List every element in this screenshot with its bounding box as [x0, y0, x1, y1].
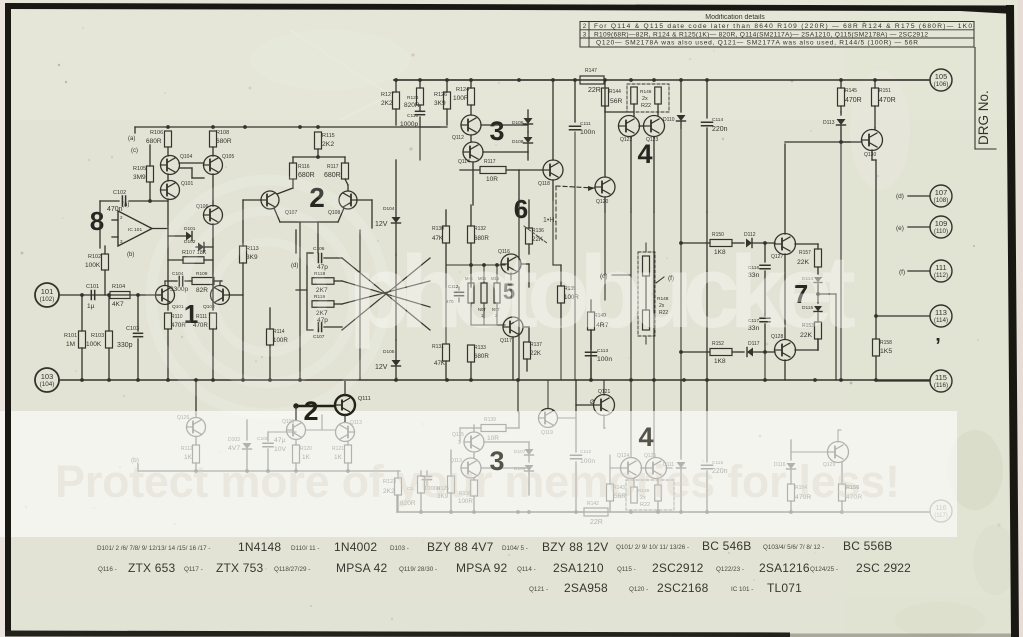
- diode D110: [663, 80, 686, 128]
- svg-text:2: 2: [583, 23, 587, 30]
- wire bot mid: [460, 412, 519, 442]
- wire q121: [576, 380, 605, 428]
- resistor R101 1M: [64, 295, 86, 380]
- node (b) opamp: [127, 252, 134, 258]
- svg-text:680R: 680R: [474, 353, 489, 360]
- svg-text:680R: 680R: [146, 138, 162, 145]
- svg-text:47K: 47K: [434, 360, 446, 367]
- svg-text:(106): (106): [934, 81, 949, 88]
- resistor R128 820R: [404, 80, 424, 109]
- wire trunk x556: [555, 186, 557, 240]
- wire trunk x553b: [553, 200, 561, 265]
- svg-text:820R: 820R: [404, 102, 420, 109]
- svg-text:4: 4: [637, 139, 652, 169]
- svg-text:4: 4: [638, 422, 653, 452]
- wire trunk x631: [630, 212, 632, 457]
- diode D108: [512, 132, 533, 160]
- capacitor C104 3300p: [168, 271, 192, 293]
- node (d) comp: [291, 263, 298, 269]
- wire R135 bottom: [560, 303, 562, 380]
- svg-text:R158: R158: [880, 340, 892, 346]
- svg-text:1•H.: 1•H.: [543, 217, 556, 224]
- wire Q130: [785, 128, 875, 160]
- resistor R157 22K: [797, 249, 822, 267]
- wire Q102: [165, 281, 243, 313]
- numeral 2 upper: [309, 182, 325, 213]
- capacitor C111 100n: [570, 80, 596, 380]
- svg-text:D105: D105: [383, 349, 395, 355]
- wire rail D: [397, 495, 930, 514]
- resistor R118 2K7: [312, 271, 342, 294]
- svg-text:Q111: Q111: [358, 396, 371, 402]
- svg-text:(108): (108): [934, 197, 949, 204]
- node (a) opamp: [122, 202, 129, 208]
- numeral 1: [184, 299, 198, 329]
- resistor R146a: [631, 87, 652, 109]
- resistor R124 100R: [453, 80, 475, 115]
- wire out bot: [610, 467, 672, 469]
- svg-text:2SC2168: 2SC2168: [657, 581, 709, 595]
- wire rail B: [394, 78, 929, 82]
- capacitor C115 220n: [702, 460, 728, 512]
- resistor R115 2K2: [315, 132, 335, 159]
- preset resistor VR101: [465, 263, 505, 325]
- svg-text:DRG No.: DRG No.: [976, 90, 991, 145]
- svg-text:C114: C114: [712, 117, 723, 123]
- wire cross 3: [342, 281, 430, 307]
- svg-text:10R: 10R: [486, 176, 498, 183]
- diode D111: [663, 380, 686, 512]
- svg-text:Q130: Q130: [864, 152, 876, 158]
- diode D103 4V7: [228, 420, 252, 471]
- resistor R136 22K: [526, 200, 545, 254]
- transistor Q106: [196, 204, 223, 225]
- svg-text:Q121 -: Q121 -: [529, 586, 548, 593]
- wire right col: [872, 160, 876, 339]
- svg-text:Q103/4/ 5/6/ 7/ 8/ 12 -: Q103/4/ 5/6/ 7/ 8/ 12 -: [763, 544, 824, 551]
- svg-text:ZTX 753: ZTX 753: [216, 561, 264, 575]
- annotation comma: [935, 335, 941, 357]
- terminal 103 (104) input return: [35, 368, 59, 392]
- modification details table: [580, 14, 974, 47]
- transistor Q110: [336, 420, 363, 445]
- svg-text:2K2: 2K2: [381, 100, 393, 107]
- resistor R146b: [655, 87, 662, 104]
- svg-text:Q104: Q104: [180, 154, 192, 160]
- numeral 6: [514, 194, 528, 224]
- svg-text:(116): (116): [934, 382, 948, 389]
- svg-text:Q120 -: Q120 -: [629, 586, 648, 593]
- legend row 3: [529, 581, 802, 595]
- svg-text:470R: 470R: [845, 97, 862, 104]
- svg-text:4K7: 4K7: [112, 301, 124, 308]
- svg-text:103: 103: [41, 372, 54, 381]
- svg-text:115: 115: [935, 373, 947, 382]
- svg-text:’: ’: [935, 335, 941, 357]
- svg-text:3: 3: [489, 116, 504, 146]
- transistor Q114: [458, 142, 483, 165]
- transistor Q101: [161, 181, 194, 200]
- wire trunk x684: [680, 128, 682, 380]
- svg-text:(a): (a): [128, 136, 135, 142]
- svg-text:Q116 -: Q116 -: [98, 566, 117, 573]
- svg-text:113: 113: [935, 308, 947, 317]
- svg-text:8: 8: [90, 206, 104, 236]
- terminal 113 (114): [874, 305, 952, 327]
- wire trunk x605b: [604, 212, 606, 300]
- svg-text:C106: C106: [313, 246, 325, 252]
- wire trunk x707: [706, 212, 708, 462]
- svg-text:(110): (110): [934, 228, 948, 235]
- diode D112: [744, 232, 775, 248]
- svg-text:1M: 1M: [66, 341, 75, 348]
- svg-text:R104: R104: [112, 284, 125, 290]
- resistor R116 680R: [290, 163, 315, 179]
- terminal 111 (112): [899, 260, 952, 282]
- svg-text:470R: 470R: [193, 322, 208, 329]
- resistor R105 3M9: [133, 145, 154, 203]
- svg-text:1K5: 1K5: [880, 348, 892, 355]
- svg-text:111: 111: [935, 263, 946, 272]
- svg-text:Q120— SM2178A was also used: Q120— SM2178A was also used, Q121— SM217…: [596, 40, 918, 47]
- transistor Q122: [619, 116, 640, 144]
- svg-text:470n: 470n: [107, 206, 123, 213]
- svg-text:C102: C102: [113, 190, 126, 196]
- resistor R114 100R: [267, 308, 289, 380]
- svg-text:1µ: 1µ: [87, 303, 95, 310]
- resistor R158 1K5: [873, 339, 893, 380]
- transistor Q130: [862, 130, 883, 159]
- terminal 101 (102) input: [35, 283, 59, 307]
- wire input node: [59, 293, 160, 297]
- svg-text:For Q114 & Q115 date code: For Q114 & Q115 date code later than 864…: [594, 23, 972, 30]
- diode D113: [823, 112, 846, 144]
- svg-text:IC 101: IC 101: [128, 227, 142, 233]
- diode D116: [774, 440, 796, 484]
- wire diffpair top: [293, 157, 345, 163]
- transistor Q126: [177, 378, 206, 445]
- resistor R131 47K: [432, 344, 450, 380]
- svg-text:R102: R102: [88, 254, 101, 260]
- capacitor C110 1000p: [400, 105, 425, 128]
- svg-text:Q114 -: Q114 -: [517, 566, 536, 573]
- svg-text:BZY 88 12V: BZY 88 12V: [542, 540, 609, 554]
- svg-text:D110: D110: [663, 117, 675, 123]
- transistor Q108: [328, 191, 357, 216]
- transistor Q103 input: [156, 286, 185, 311]
- svg-text:R117: R117: [484, 159, 496, 165]
- svg-text:R126: R126: [434, 92, 447, 98]
- transistor Q107: [261, 191, 297, 216]
- svg-text:2K2: 2K2: [322, 141, 334, 148]
- resistor R145 470R: [838, 80, 862, 112]
- transistor Q104: [161, 154, 193, 175]
- resistor R149b: [655, 479, 662, 512]
- svg-text:2SA1216: 2SA1216: [759, 561, 810, 575]
- svg-text:photobucket: photobucket: [348, 234, 856, 349]
- capacitor C114 220n: [702, 80, 728, 212]
- wire diffpair: [243, 179, 372, 253]
- svg-text:Q105: Q105: [222, 154, 234, 160]
- svg-text:BZY 88 4V7: BZY 88 4V7: [427, 540, 494, 554]
- transistor Q125: [644, 453, 667, 479]
- op-amp IC101 TL071: [112, 211, 168, 246]
- svg-text:100n: 100n: [597, 356, 612, 363]
- svg-text:BC 556B: BC 556B: [843, 539, 892, 553]
- svg-text:Q114: Q114: [458, 159, 470, 165]
- dashed box R149: [626, 480, 674, 510]
- svg-text:R151: R151: [879, 88, 891, 94]
- wire q109-q110: [306, 429, 335, 431]
- resistor R112 1K: [181, 445, 200, 471]
- svg-text:3: 3: [583, 31, 587, 38]
- svg-text:(d): (d): [896, 193, 904, 200]
- capacitor C106 47p: [313, 246, 342, 271]
- svg-text:R128: R128: [407, 95, 419, 101]
- node (c) rail: [131, 148, 138, 154]
- svg-text:D104/ 5 -: D104/ 5 -: [502, 545, 528, 552]
- svg-text:3: 3: [489, 446, 504, 476]
- diode D107: [514, 442, 534, 462]
- terminal 105 (106): [875, 69, 952, 91]
- svg-text:R114: R114: [273, 329, 285, 335]
- resistor R113 3K9: [240, 200, 259, 380]
- resistor R150 1K8: [710, 232, 744, 256]
- svg-text:ZTX 653: ZTX 653: [128, 561, 176, 575]
- svg-text:100n: 100n: [580, 129, 595, 136]
- svg-text:IC 101 -: IC 101 -: [731, 586, 753, 593]
- wire Q118: [519, 80, 553, 200]
- svg-text:Q115 -: Q115 -: [617, 566, 636, 573]
- svg-text:R130: R130: [432, 226, 444, 232]
- numeral 3 upper: [489, 116, 504, 146]
- wire b7 q128: [785, 339, 818, 380]
- wire VAS mid: [446, 243, 529, 287]
- svg-text:470R: 470R: [879, 97, 896, 104]
- svg-text:330p: 330p: [117, 342, 133, 349]
- svg-text:MPSA 42: MPSA 42: [336, 561, 388, 575]
- svg-text:C111: C111: [580, 121, 591, 127]
- transistor Q119b: [539, 380, 577, 436]
- svg-text:12V: 12V: [375, 364, 388, 371]
- svg-text:D101: D101: [184, 226, 196, 232]
- diode D102: [184, 239, 213, 252]
- resistor R149a: [631, 479, 650, 508]
- transistor Q111 bold: [293, 395, 370, 415]
- wire cross 1: [342, 258, 430, 330]
- svg-text:R108: R108: [216, 130, 229, 136]
- capacitor C109 1000p: [423, 471, 441, 492]
- resistor R110 470R: [165, 313, 187, 382]
- annotation 1.H: [524, 217, 556, 243]
- svg-text:12V: 12V: [375, 221, 388, 228]
- svg-text:22R: 22R: [588, 87, 601, 94]
- numeral 4 upper: [637, 139, 652, 169]
- resistor R117 680R: [324, 163, 349, 179]
- svg-text:Q108: Q108: [328, 210, 340, 216]
- svg-text:C110: C110: [407, 113, 418, 119]
- resistor R132 680R: [468, 205, 490, 287]
- numeral 4 lower: [638, 422, 653, 452]
- numeral 5: [503, 279, 515, 304]
- wire Q104-Q105: [168, 147, 213, 178]
- svg-text:D110/ 11 -: D110/ 11 -: [291, 545, 319, 552]
- transistor Q117: [500, 317, 523, 344]
- terminal 109 (110): [896, 216, 952, 238]
- resistor R148 dashed block: [638, 243, 669, 344]
- svg-text:R117: R117: [327, 164, 339, 170]
- svg-text:R132: R132: [474, 226, 486, 232]
- wire trunk x841: [840, 128, 842, 380]
- transistor Q105: [204, 154, 235, 175]
- wire Q111 collector: [296, 381, 345, 422]
- svg-text:(d): (d): [291, 263, 298, 269]
- svg-text:Q117 -: Q117 -: [184, 566, 203, 573]
- resistor R134 10R: [460, 159, 519, 183]
- resistor R140 4R7: [588, 300, 609, 380]
- svg-text:(f): (f): [899, 269, 905, 276]
- transistor Q127: [771, 234, 796, 261]
- terminal 107 (108): [896, 185, 952, 207]
- svg-text:(c): (c): [131, 148, 138, 154]
- resistor R119 2K7: [312, 294, 342, 317]
- wire q111 base: [321, 415, 323, 430]
- wire (b) line: [131, 457, 400, 473]
- resistor R103 100K: [86, 295, 113, 380]
- svg-text:R145: R145: [845, 88, 857, 94]
- diode D106: [512, 110, 533, 132]
- svg-text:680R: 680R: [216, 138, 232, 145]
- svg-text:Q101/ 2/ 9/ 10/ 11/ 13/26 -: Q101/ 2/ 9/ 10/ 11/ 13/26 -: [616, 544, 689, 551]
- resistor R106 680R: [146, 130, 172, 147]
- wire comp bracket: [296, 230, 313, 330]
- svg-text:680R: 680R: [324, 172, 341, 179]
- capacitor C116 33n: [748, 243, 770, 314]
- svg-text:D113: D113: [823, 120, 835, 126]
- svg-text:109: 109: [935, 219, 948, 228]
- svg-text:1N4148: 1N4148: [238, 540, 281, 554]
- capacitor C117 33n: [748, 314, 770, 352]
- svg-text:Q101: Q101: [181, 181, 193, 187]
- transistor Q119: [595, 177, 615, 205]
- resistor R142 22R: [560, 501, 608, 526]
- svg-text:1000p: 1000p: [400, 121, 418, 128]
- transistor Q118: [538, 160, 563, 187]
- node (f) mid: [656, 275, 674, 283]
- numeral 8: [90, 206, 104, 236]
- svg-text:D108: D108: [512, 139, 524, 145]
- transistor Q124: [617, 453, 642, 479]
- resistor R107 18K: [168, 250, 213, 263]
- svg-text:D101/ 2 /6/ 7/8/ 9/ 12/13/ 14: D101/ 2 /6/ 7/8/ 9/ 12/13/ 14 /15/ 16 /1…: [97, 545, 210, 552]
- resistor R156 470R: [839, 462, 863, 512]
- svg-text:(104): (104): [40, 381, 55, 388]
- svg-text:R124: R124: [456, 87, 469, 93]
- svg-text:Q122/23 -: Q122/23 -: [716, 566, 744, 573]
- svg-text:107: 107: [935, 188, 948, 197]
- capacitor C101 1u: [86, 284, 99, 310]
- svg-text:C103: C103: [126, 326, 139, 332]
- wire b7 bottom: [679, 350, 710, 354]
- legend row 1: [97, 539, 892, 554]
- resistor R139 10R: [460, 417, 519, 442]
- resistor R133 680R: [468, 345, 490, 380]
- svg-text:D103 -: D103 -: [390, 545, 409, 552]
- capacitor C107 47p: [313, 317, 342, 340]
- svg-text:R111: R111: [196, 314, 207, 320]
- resistor R102 100K: [85, 246, 109, 295]
- svg-text:(112): (112): [934, 272, 948, 279]
- svg-text:101: 101: [41, 287, 54, 296]
- svg-text:R106: R106: [150, 130, 163, 136]
- resistor R153 22K: [800, 313, 822, 350]
- numeral 3 lower: [489, 446, 504, 476]
- svg-text:2SC2912: 2SC2912: [652, 561, 704, 575]
- resistor R125 3K9: [437, 450, 455, 512]
- resistor R151 470R: [872, 80, 896, 128]
- capacitor C113 100n: [586, 330, 613, 380]
- wire trunk x420m: [419, 127, 421, 160]
- diode D109: [514, 465, 534, 495]
- svg-text:C101: C101: [86, 284, 99, 290]
- diode D114: [802, 267, 822, 283]
- dashed box R146: [627, 84, 669, 112]
- wire trunk x360: [359, 230, 361, 380]
- transistor Q109: [282, 419, 306, 445]
- svg-text:2SA958: 2SA958: [564, 581, 608, 595]
- svg-text:(b): (b): [127, 252, 134, 258]
- resistor R152 1K8: [710, 341, 744, 365]
- wire cross 2: [342, 258, 430, 330]
- transistor Q123: [644, 116, 665, 144]
- resistor R147 22R: [394, 68, 604, 94]
- resistor R135 100R: [558, 265, 580, 325]
- transistor Q112: [452, 115, 481, 141]
- transistor Q115b: [450, 458, 481, 478]
- capacitor C103 330p: [117, 295, 143, 380]
- svg-text:Q124/25 -: Q124/25 -: [810, 566, 838, 573]
- wire left column: [168, 174, 213, 310]
- svg-text:Q120: Q120: [596, 199, 608, 205]
- svg-text:100K: 100K: [85, 262, 101, 269]
- svg-text:Q112: Q112: [452, 135, 464, 141]
- wire cross 4: [342, 281, 430, 304]
- svg-text:R127: R127: [381, 92, 394, 98]
- wire trunk x396b: [395, 255, 397, 340]
- svg-text:Modification details: Modification details: [705, 14, 765, 21]
- svg-text:100K: 100K: [86, 341, 102, 348]
- svg-text:2: 2: [303, 396, 318, 426]
- svg-text:R147: R147: [585, 68, 597, 74]
- svg-text:R101: R101: [64, 333, 77, 339]
- legend row 2: [98, 561, 911, 575]
- svg-text:D106: D106: [512, 120, 524, 126]
- svg-text:3K9: 3K9: [434, 100, 446, 107]
- node (a) rail: [128, 136, 135, 142]
- svg-text:220n: 220n: [712, 126, 728, 133]
- resistor R104 4K7: [110, 284, 130, 308]
- terminal 115 (116): [876, 370, 952, 392]
- resistor R154 470R: [788, 484, 812, 512]
- svg-text:BC 546B: BC 546B: [702, 539, 751, 553]
- svg-text:R144: R144: [609, 89, 621, 95]
- resistor R121 1K: [332, 445, 352, 471]
- wire b7 mid: [816, 292, 836, 380]
- wire rail C: [59, 378, 930, 382]
- wire VAS mid2: [446, 287, 529, 380]
- wire rail A: [135, 125, 440, 133]
- capacitor C112m: [446, 284, 464, 304]
